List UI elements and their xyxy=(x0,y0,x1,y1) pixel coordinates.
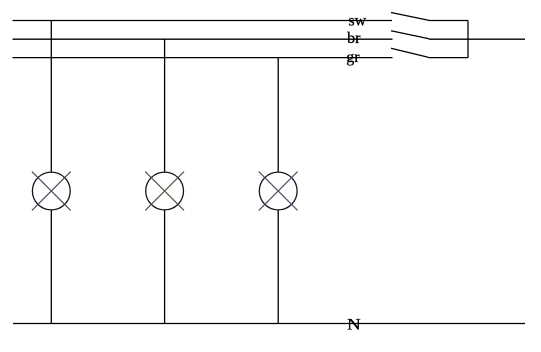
svg-text:gr: gr xyxy=(346,49,360,66)
wire L3 (gr phase, bottom horizontal) xyxy=(13,57,393,59)
lamp E2 xyxy=(145,172,184,211)
wire drop 2 upper (L2 to lamp E2) xyxy=(164,39,166,172)
wire drop 3 upper (L3 to lamp E3) xyxy=(277,58,279,173)
svg-text:br: br xyxy=(347,30,361,47)
switch S1 blade pole 3 xyxy=(391,48,428,57)
wire from S1 pole1 contact to bus xyxy=(429,20,469,22)
wire drop 1 lower (lamp E1 to N) xyxy=(50,210,52,324)
switch S1 blade pole 2 xyxy=(391,31,429,39)
switch output bus vertical wire xyxy=(467,21,469,58)
wire drop 1 upper (L1 to lamp E1) xyxy=(50,21,52,173)
lamp E3 xyxy=(259,172,298,211)
wire drop 2 lower (lamp E2 to N) xyxy=(164,210,166,324)
wire N (neutral, bottom horizontal) xyxy=(13,323,525,325)
wire from S1 pole3 contact to bus xyxy=(428,57,468,59)
wire L1 (sw phase, top horizontal) xyxy=(13,20,393,22)
wire L2 (br phase, middle horizontal) xyxy=(13,38,393,40)
svg-text:sw: sw xyxy=(348,13,366,30)
wire drop 3 lower (lamp E3 to N) xyxy=(277,210,279,324)
svg-text:N: N xyxy=(347,316,361,333)
lamp E1 xyxy=(32,172,71,211)
wire from S1 pole2 contact to right edge xyxy=(429,38,525,40)
switch S1 blade pole 1 xyxy=(391,13,429,21)
